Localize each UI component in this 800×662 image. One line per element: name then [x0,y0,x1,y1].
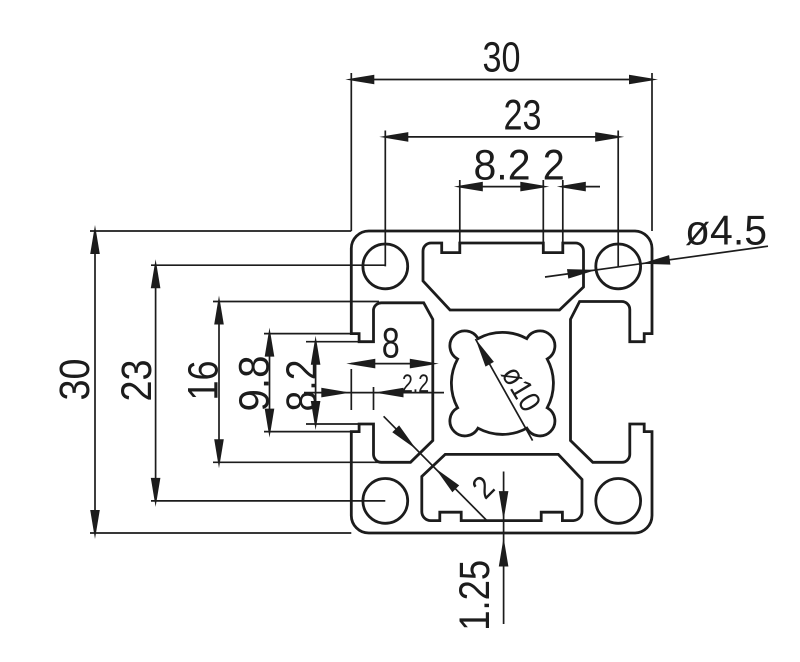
dimension 23 top: right arrow [595,132,624,142]
dimension 9.8: dimension line [269,334,271,432]
dimension 8: dimension line [351,363,433,365]
dimension 30 left: extension line bottom [90,532,351,534]
dimension 30 left: top arrow [90,225,100,254]
center bore Ø10 with four corner lobes [450,331,555,436]
dimension Ø10: arrow [476,339,494,367]
svg-text:23: 23 [113,360,161,402]
dimension 30 top: left arrow [345,75,374,85]
corner hole top-right Ø4.5 [596,244,641,289]
corner hole bottom-left Ø4.5 [363,479,408,524]
dimension Ø4.5: leader line [545,246,768,277]
dimension Ø10: dimension line [476,339,533,441]
dimension 9.8: bottom arrow [265,409,275,438]
svg-text:30: 30 [51,359,99,401]
dimension 9.8: top arrow [265,328,275,357]
dimension 8.2 top: extension line middle [542,180,544,253]
dimension 30 top: extension line left [350,73,352,231]
dimension 23 left: extension line bottom to hole center [151,500,385,502]
dimension 30 top: dimension line [351,79,652,81]
dimension 8: extension line left on profile face [350,369,352,410]
dimension 30 top: extension line right [651,73,653,231]
dimension 23 top: extension line left into hole center [384,131,386,267]
dimension 8.2 top: dimension line [460,186,544,188]
dimension 1.25: lower arrow [499,538,509,567]
dimension 23 top: extension line right into hole center [617,131,619,267]
dimension 9.8: extension line bottom [264,431,358,433]
dimension 30 top: right arrow [629,75,658,85]
dimension 8.2 left: top arrow [311,336,321,365]
dimension 8.2 left: bottom arrow [311,401,321,430]
dimension 2 top: extension line right [562,180,564,253]
dimension Ø4.5: left arrow at hole edge [567,269,596,279]
dimension 2 diagonal: dimension line [384,416,487,520]
dimension 8.2 top: right arrow [520,182,549,192]
dimension Ø4.5: right arrow at hole edge [641,255,670,265]
bottom face internal cavity with two screw-boss notches [422,454,582,520]
dimension 23 left: extension line top to hole center [151,264,385,266]
corner hole bottom-right Ø4.5 [596,479,641,524]
dimension 23 left: dimension line [155,265,157,501]
top face internal cavity with two screw-boss notches [423,243,584,310]
svg-text:8.2: 8.2 [278,360,326,412]
dimension 30 left: bottom arrow [90,510,100,539]
svg-text:8.2: 8.2 [474,142,531,190]
dimension 8.2 top: left arrow [454,182,483,192]
dimension 16: bottom arrow [214,439,224,468]
dimension 2.2: right arrow outside [375,388,404,398]
dimension 1.25: upper arrow [499,491,509,520]
svg-text:30: 30 [483,34,521,82]
svg-text:ø4.5: ø4.5 [685,207,767,254]
dimension 8: left arrow [346,359,375,369]
dimension 23 top: left arrow [379,132,408,142]
dimension 2 top: arrow from right [557,182,586,192]
dimension 23 left: top arrow [151,259,161,288]
dimension 2.2: extension line right [373,387,375,410]
dimension 23 top: dimension line [385,136,618,138]
dimension 16: dimension line [218,302,220,463]
dimension 30 left: extension line top [90,230,351,232]
dimension 2 diagonal: lower arrow [435,468,459,492]
profile outer boundary with left and right T-slot openings [351,231,652,533]
svg-text:2: 2 [543,142,565,190]
dimension 30 left: dimension line [94,231,96,533]
dimension 16: extension line bottom [213,461,379,463]
svg-text:23: 23 [504,91,542,139]
svg-text:16: 16 [180,361,228,401]
dimension 8.2 left: extension line bottom [306,423,358,425]
dimension 2 diagonal: upper arrow [392,425,416,449]
svg-text:9.8: 9.8 [231,356,279,412]
dimension 8.2 left: extension line top [306,341,358,343]
dimension 16: top arrow [214,296,224,325]
svg-text:8: 8 [382,320,400,368]
dimension 16: extension line top [213,301,379,303]
dimension 2.2: left arrow outside [321,388,350,398]
dimension 1.25: dimension line [503,472,505,625]
dimension 8.2 top: extension line left [459,180,461,253]
svg-text:2.2: 2.2 [402,370,429,398]
dimension 23 left: bottom arrow [151,478,161,507]
dimension 8.2 left: dimension line [315,342,317,424]
svg-text:1.25: 1.25 [451,560,499,631]
dimension 2 top: tail line [563,186,600,188]
dimension 9.8: extension line top [264,333,358,335]
dimension 8: right arrow [410,359,439,369]
dimension 2.2: dimension line with tail [304,392,444,394]
corner hole top-left Ø4.5 [363,244,408,289]
